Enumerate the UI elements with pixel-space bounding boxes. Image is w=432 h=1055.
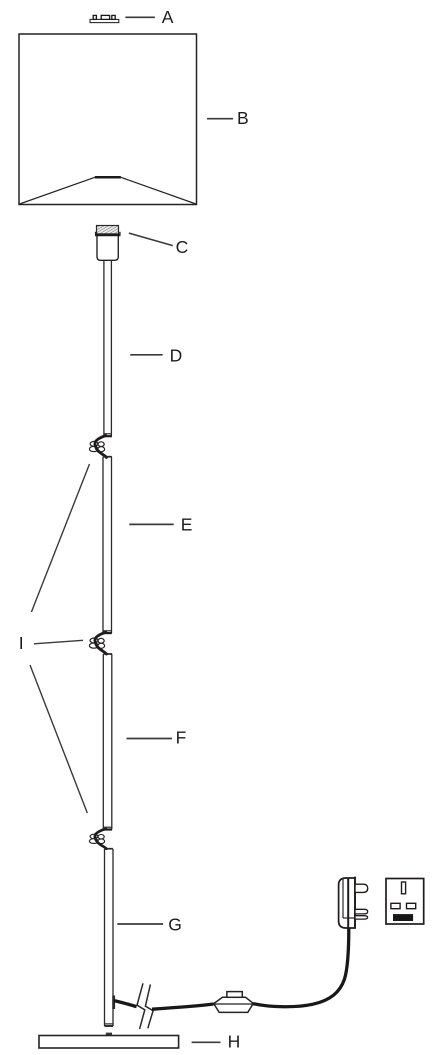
cable clamp on pole xyxy=(112,996,115,1010)
label C xyxy=(176,237,189,257)
label C leader xyxy=(129,233,173,246)
label I leader to joint 3 xyxy=(30,665,87,813)
label G leader xyxy=(117,923,163,925)
svg-text:C: C xyxy=(176,237,189,257)
label I leader to joint 2 xyxy=(34,640,83,644)
plug xyxy=(339,877,368,929)
svg-text:D: D xyxy=(170,346,183,366)
label I leader to joint 1 xyxy=(31,464,89,612)
label D xyxy=(170,346,183,366)
cord from break to switch xyxy=(152,1004,214,1009)
part A shade ring xyxy=(90,15,119,22)
label A xyxy=(162,7,174,27)
pole section D xyxy=(103,260,112,436)
break mark left xyxy=(137,983,145,1029)
lampshade B xyxy=(19,34,197,205)
svg-text:I: I xyxy=(19,633,24,653)
joint 2 xyxy=(89,632,106,654)
label B leader xyxy=(207,118,233,120)
svg-text:E: E xyxy=(181,514,193,534)
lamp holder C xyxy=(95,226,121,261)
inline switch xyxy=(214,992,254,1013)
label D leader xyxy=(130,354,162,356)
wall socket xyxy=(386,879,424,925)
label F leader xyxy=(127,738,172,740)
label F xyxy=(176,728,187,748)
label B xyxy=(237,108,249,128)
label E leader xyxy=(129,523,173,525)
joint 1 xyxy=(89,436,106,458)
pole section F xyxy=(103,654,112,830)
label E xyxy=(181,514,193,534)
svg-text:F: F xyxy=(176,728,187,748)
cord from pole to break xyxy=(114,1001,137,1007)
label A leader xyxy=(125,16,154,18)
threaded stud xyxy=(106,1033,112,1036)
svg-text:H: H xyxy=(228,1031,241,1051)
pole section E xyxy=(103,457,112,633)
label H xyxy=(228,1031,241,1051)
svg-text:B: B xyxy=(237,108,249,128)
break mark right xyxy=(145,984,153,1028)
svg-text:A: A xyxy=(162,7,174,27)
cord from switch to plug xyxy=(253,928,349,1007)
label H leader xyxy=(192,1041,221,1043)
pole section G xyxy=(104,849,113,1026)
svg-text:G: G xyxy=(168,915,182,935)
joint 3 xyxy=(89,829,106,849)
label I xyxy=(19,633,24,653)
label G xyxy=(168,915,182,935)
base H xyxy=(39,1036,179,1049)
